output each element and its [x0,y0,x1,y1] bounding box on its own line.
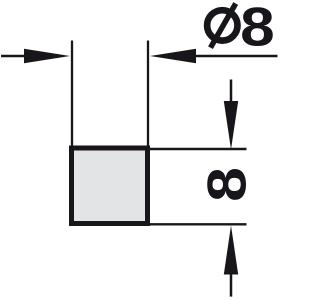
up arrow shaft (wire) [230,272,233,297]
svg-text:8: 8 [197,167,258,202]
svg-text:8: 8 [240,0,275,58]
arrowhead pointing left [150,49,196,63]
dimension line left segment (wire) [1,55,26,57]
extension line right (vertical) [147,41,149,147]
down arrow shaft (wire) [230,80,233,104]
square part body [72,148,148,224]
dimension line right segment (wire) [194,55,278,57]
arrowhead pointing right [24,49,70,63]
label Ø (diameter symbol circle) [207,10,237,40]
extension line top-right (horizontal) [150,148,247,150]
extension line bottom-right (horizontal) [150,223,247,225]
extension line left (vertical) [71,41,73,147]
up arrowhead [224,226,238,275]
label Ø (diameter symbol slash) [211,4,236,48]
down arrowhead [224,101,238,150]
